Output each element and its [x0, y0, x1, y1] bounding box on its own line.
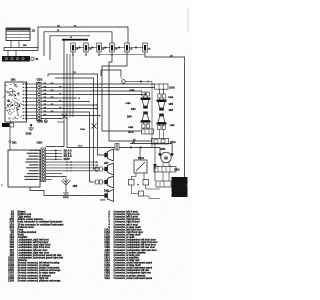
svg-text:Connector, at radio unit: Connector, at radio unit	[114, 254, 140, 257]
svg-text:Connector, loudspeaker left re: Connector, loudspeaker left rear door	[114, 246, 156, 249]
svg-text:C/DA: C/DA	[174, 168, 180, 171]
svg-text:31/50: 31/50	[64, 158, 71, 161]
svg-text:Antenna: Antenna	[18, 259, 28, 262]
svg-text:Connector, at relay shelf: Connector, at relay shelf	[114, 233, 141, 236]
svg-text:Loudspeaker, right rear door: Loudspeaker, right rear door	[18, 251, 50, 254]
svg-text:31/35: 31/35	[100, 199, 106, 201]
svg-text:Connector, loudspeaker right r: Connector, loudspeaker right rear door	[114, 249, 157, 252]
svg-text:Connector, right B-post: Connector, right B-post	[114, 218, 140, 221]
svg-text:Connector, left A-post: Connector, left A-post	[114, 211, 138, 214]
svg-text:31: 31	[78, 98, 80, 100]
svg-text:Battery: Battery	[18, 211, 27, 214]
svg-text:C/AA: C/AA	[104, 228, 110, 231]
svg-text:15/1: 15/1	[12, 142, 17, 144]
svg-text:30: 30	[70, 37, 72, 39]
svg-text:C/AB: C/AB	[129, 89, 135, 92]
svg-text:Ground connector, behind instr: Ground connector, behind instrument	[18, 267, 60, 270]
svg-text:16/6: 16/6	[169, 110, 174, 112]
svg-text:Connector, at amplifier: Connector, at amplifier	[114, 256, 139, 259]
svg-text:C/AR: C/AR	[37, 120, 43, 123]
svg-text:8-pin connector to combined in: 8-pin connector to combined instrument	[18, 221, 63, 224]
svg-text:C/DA: C/DA	[104, 251, 110, 254]
svg-text:C/BC: C/BC	[126, 103, 132, 105]
svg-text:Connector, right B-post: Connector, right B-post	[114, 221, 140, 224]
svg-text:Connector, under instrument pa: Connector, under instrument panel	[114, 267, 153, 270]
svg-text:Amplifier: Amplifier	[18, 236, 28, 239]
svg-text:X9: X9	[74, 25, 76, 27]
svg-text:Connector, right A-post: Connector, right A-post	[114, 213, 140, 216]
svg-text:C/BF: C/BF	[170, 125, 176, 127]
svg-text:4/8: 4/8	[132, 141, 135, 144]
svg-text:C/DC: C/DC	[37, 79, 43, 82]
svg-text:1/2: 1/2	[148, 48, 151, 50]
svg-text:Loudspeaker, left front door: Loudspeaker, left front door	[18, 241, 49, 244]
svg-text:6/34: 6/34	[9, 226, 14, 229]
svg-text:1/1: 1/1	[32, 30, 36, 33]
svg-text:Connector, under instrument pa: Connector, under instrument panel	[114, 262, 153, 265]
svg-text:Ground connector, antenna anch: Ground connector, antenna anchorage	[18, 279, 62, 282]
svg-text:Connector, at relay shelf: Connector, at relay shelf	[114, 226, 141, 229]
svg-text:Positive terminal: Positive terminal	[18, 231, 37, 234]
svg-text:Connector, at relay unit: Connector, at relay unit	[114, 259, 140, 262]
svg-text:7/8: 7/8	[73, 72, 76, 74]
svg-text:C/AA: C/AA	[104, 262, 110, 265]
svg-text:Connector, at radio: Connector, at radio	[114, 236, 136, 239]
svg-text:C/AA: C/AA	[128, 131, 134, 134]
svg-text:15-pin connector to combined i: 15-pin connector to combined instrument	[18, 223, 64, 226]
svg-text:Loudspeaker, instrument panel: Loudspeaker, instrument panel right side	[18, 256, 64, 259]
svg-text:3/1 A: 3/1 A	[78, 144, 83, 147]
svg-text:M: M	[164, 156, 168, 161]
svg-text:1/8: 1/8	[115, 48, 118, 50]
svg-text:31/18: 31/18	[26, 134, 32, 136]
svg-text:C/AC: C/AC	[104, 233, 110, 236]
svg-text:Connector, under instrument pa: Connector, under instrument panel	[114, 277, 153, 280]
svg-text:1/1: 1/1	[130, 48, 133, 50]
svg-text:Connector, left B-post: Connector, left B-post	[114, 216, 139, 219]
svg-text:Connector, at relay shelf: Connector, at relay shelf	[114, 264, 141, 267]
svg-text:Connector, loudspeaker right f: Connector, loudspeaker right front door	[114, 241, 158, 244]
svg-text:16/7: 16/7	[104, 163, 109, 165]
svg-text:Loudspeaker, left rear door: Loudspeaker, left rear door	[18, 249, 48, 252]
svg-text:Ground connector, on tunnel: Ground connector, on tunnel	[18, 264, 50, 267]
svg-text:C/BA: C/BA	[104, 269, 110, 272]
svg-text:Loudspeaker, instrument panel: Loudspeaker, instrument panel left side	[18, 254, 63, 257]
svg-text:Connector, loudspeaker left fr: Connector, loudspeaker left front door	[114, 244, 157, 247]
svg-text:1/5: 1/5	[76, 48, 79, 50]
svg-text:Connector, loudspeaker left fr: Connector, loudspeaker left front door	[114, 239, 157, 242]
svg-text:1/6: 1/6	[89, 48, 92, 50]
svg-text:15: 15	[57, 30, 59, 32]
svg-text:Loudspeaker, dash right front: Loudspeaker, dash right front	[18, 244, 51, 247]
svg-text:C/EA: C/EA	[104, 277, 110, 280]
svg-text:Connector, right front door: Connector, right front door	[114, 231, 144, 234]
svg-text:Connector, loudspeaker left re: Connector, loudspeaker left rear	[114, 269, 150, 272]
svg-text:C/BD: C/BD	[168, 97, 174, 99]
svg-text:C/AD: C/AD	[169, 87, 175, 90]
svg-text:C/DA: C/DA	[104, 274, 110, 277]
svg-text:16/2: 16/2	[11, 79, 16, 82]
svg-text:16/5: 16/5	[169, 104, 174, 106]
svg-text:Ground connector, left wheel h: Ground connector, left wheel housing	[18, 262, 60, 265]
svg-text:1/7: 1/7	[102, 48, 105, 50]
svg-text:16/4: 16/4	[9, 241, 14, 244]
svg-text:Ground connector, antenna anch: Ground connector, antenna anchorage	[18, 269, 62, 272]
svg-text:Antenna motor: Antenna motor	[18, 226, 35, 229]
svg-text:C/AB: C/AB	[80, 128, 85, 131]
svg-text:Connector, left front door: Connector, left front door	[114, 228, 142, 231]
svg-text:Connector, loudspeaker right r: Connector, loudspeaker right rear	[114, 272, 151, 275]
svg-text:4/8: 4/8	[170, 54, 173, 57]
svg-text:Light switch: Light switch	[18, 216, 32, 219]
svg-text:C/AB: C/AB	[104, 264, 110, 267]
svg-text:Loudspeaker, dash left front: Loudspeaker, dash left front	[18, 239, 49, 242]
svg-text:16/9: 16/9	[73, 185, 78, 188]
svg-text:Switch, power antenna: Switch, power antenna	[18, 218, 44, 221]
svg-text:31/30: 31/30	[8, 280, 15, 282]
svg-text:C/EA: C/EA	[104, 259, 110, 262]
svg-text:Ground connector, right rail: Ground connector, right rail	[18, 277, 49, 280]
svg-text:C/AC: C/AC	[104, 267, 110, 270]
svg-text:16/4: 16/4	[127, 116, 132, 119]
svg-text:Connector, at power antenna: Connector, at power antenna	[114, 274, 147, 277]
svg-text:Loudspeaker, right front door: Loudspeaker, right front door	[18, 246, 51, 249]
svg-text:6/34: 6/34	[161, 148, 166, 151]
svg-text:Ignition lock: Ignition lock	[18, 213, 32, 216]
svg-text:Ground connector, in cargo spa: Ground connector, in cargo space	[18, 272, 56, 275]
svg-text:31/13: 31/13	[138, 158, 144, 160]
svg-text:C/AR: C/AR	[104, 236, 110, 239]
svg-text:C/BE: C/BE	[128, 127, 134, 129]
svg-text:Connector, left A-post: Connector, left A-post	[114, 223, 138, 226]
svg-text:C/AB: C/AB	[104, 231, 110, 234]
svg-text:16/3: 16/3	[131, 109, 136, 111]
svg-text:Ground connector, at antenna: Ground connector, at antenna	[18, 274, 52, 277]
svg-text:C/DG: C/DG	[37, 142, 43, 144]
svg-text:Connector, at power antenna: Connector, at power antenna	[114, 251, 147, 254]
